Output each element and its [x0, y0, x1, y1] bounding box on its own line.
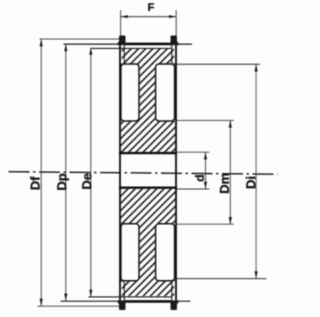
Df extension top — [40, 38, 120, 40]
recess bottom-right — [156, 224, 175, 281]
recess top-right — [156, 64, 175, 121]
belt line bottom thick — [124, 300, 172, 303]
bore top line — [119, 152, 177, 154]
flange plate inner line bottom-left — [123, 281, 125, 302]
hatch web upper — [139, 63, 156, 121]
label De — [82, 173, 91, 188]
flange cap top-right — [171, 36, 179, 46]
dimension De line — [90, 48, 92, 297]
body left edge — [119, 44, 121, 301]
belt line top thick — [124, 43, 172, 46]
body right edge — [175, 44, 177, 301]
shoulder line bottom-right — [174, 280, 177, 282]
hatch rim bottom band — [122, 281, 174, 297]
flange plate inner line top-left — [123, 45, 125, 65]
dimension Dm extension lines — [177, 119, 234, 121]
label Dp — [57, 174, 69, 190]
flange plate inner line top-right — [171, 45, 173, 65]
dimension Dp line — [65, 44, 67, 301]
flange cap top-left — [117, 36, 125, 46]
shoulder line top-right with Di extension — [174, 63, 260, 65]
dimension Dm line — [229, 120, 231, 224]
flange plate inner line bottom-right — [171, 281, 173, 302]
recess bottom-left — [121, 224, 139, 281]
hatch hub lower band — [120, 189, 176, 224]
recess top-left — [121, 64, 139, 121]
label d — [195, 175, 204, 181]
centerline axis — [9, 172, 278, 175]
bore bottom line — [119, 186, 177, 188]
Df extension bottom — [38, 305, 120, 307]
dimension F extension lines — [120, 10, 122, 35]
dimension d line — [205, 152, 207, 189]
dimension Df line — [40, 39, 42, 306]
hatch hub upper band — [120, 121, 176, 152]
label Di — [246, 177, 255, 188]
Di extension bottom — [173, 278, 266, 280]
outer diameter line bottom — [89, 296, 172, 298]
dimension F line — [121, 16, 177, 18]
dimension Di line — [255, 64, 257, 278]
label Df — [30, 176, 39, 189]
dimension d extension lines — [177, 151, 209, 153]
hatch rim top band — [122, 49, 174, 64]
label F — [148, 3, 154, 11]
pitch line top — [64, 43, 193, 45]
outer diameter line top — [90, 47, 171, 49]
pitch line bottom — [61, 300, 191, 302]
flange cap bottom-right — [171, 300, 179, 310]
shoulder line top-left — [119, 63, 122, 65]
hatch web lower — [139, 224, 156, 281]
label Dm — [220, 174, 229, 193]
flange cap bottom-left — [117, 300, 125, 310]
shoulder line bottom-left — [119, 280, 122, 282]
